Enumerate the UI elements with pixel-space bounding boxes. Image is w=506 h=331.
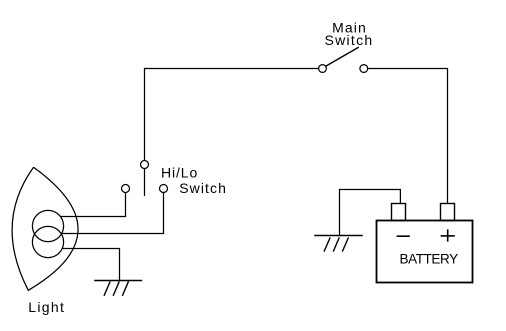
wire (main switch right contact to battery + terminal) bbox=[368, 69, 448, 204]
svg-text:Light: Light bbox=[28, 299, 65, 315]
wire (top feed to main switch left contact) bbox=[144, 68, 319, 70]
label "+" (positive) bbox=[441, 229, 455, 241]
light bulb filament circle (low beam) bbox=[32, 226, 63, 257]
svg-text:BATTERY: BATTERY bbox=[400, 252, 459, 267]
switch S1 Main: left contact circle bbox=[319, 65, 327, 73]
svg-text:Switch: Switch bbox=[179, 180, 227, 196]
switch S1 Main: right contact circle bbox=[360, 65, 368, 73]
switch S2 Hi/Lo: left contact circle bbox=[122, 185, 130, 193]
svg-text:Hi/Lo: Hi/Lo bbox=[161, 164, 198, 180]
wire (top bulb to Hi/Lo switch left contact) bbox=[60, 192, 125, 216]
wire (bulb lens tip to Hi/Lo switch right contact) bbox=[62, 192, 164, 233]
ground (right, battery return) bbox=[314, 236, 363, 252]
battery BT1 body bbox=[377, 221, 473, 283]
switch S2 Hi/Lo: lever bbox=[144, 169, 146, 197]
switch S2 Hi/Lo: right contact circle bbox=[160, 185, 168, 193]
wire (Hi/Lo common terminal up to top feed wire) bbox=[144, 68, 146, 161]
switch S2 Hi/Lo: common terminal circle bbox=[141, 161, 149, 169]
ground (left, lamp return) bbox=[94, 281, 142, 296]
battery negative terminal post bbox=[392, 204, 406, 221]
battery positive terminal post bbox=[441, 204, 455, 221]
label "-" (negative) bbox=[397, 235, 410, 237]
switch S1 Main: lever bbox=[326, 47, 359, 66]
label "Hi/Lo Switch" bbox=[161, 164, 227, 196]
light L1 headlamp reflector outline bbox=[12, 167, 78, 290]
wire (bottom bulb to left ground) bbox=[62, 249, 119, 281]
wire (battery - terminal to right ground jumper) bbox=[340, 190, 401, 237]
light bulb filament circle (high beam) bbox=[32, 210, 63, 241]
label "Main Switch" bbox=[324, 20, 373, 49]
svg-text:Switch: Switch bbox=[324, 32, 373, 48]
